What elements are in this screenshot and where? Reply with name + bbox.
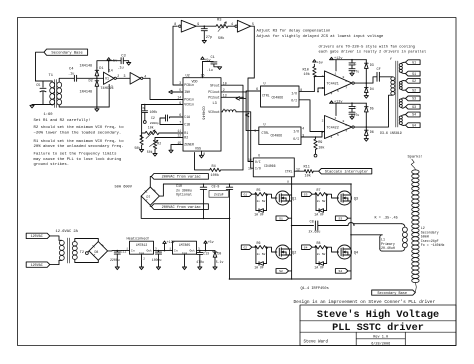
svg-text:PC1out: PC1out [208,90,220,94]
svg-text:S2: S2 [412,88,416,92]
svg-text:+12v: +12v [334,101,342,105]
svg-text:C13: C13 [203,251,209,255]
svg-text:50k: 50k [218,36,224,41]
svg-text:S3: S3 [412,97,416,101]
svg-text:R1: R1 [184,131,188,135]
ground (LM7812 Com) [141,254,143,267]
svg-text:Q2: Q2 [292,251,296,255]
svg-text:Out: Out [146,249,152,253]
svg-text:C1: C1 [211,56,215,60]
capacitor C8 2x.68u [314,221,316,230]
wire L2 bottom to Secondary Base flag [415,282,416,292]
svg-text:10: 10 [248,158,252,162]
GDT secondary windings [399,64,402,67]
svg-text:.1u: .1u [117,67,123,71]
zener D9 5.1v [214,251,216,252]
power +12v rail B [330,102,367,104]
wire +5v to U1 VCC [108,61,110,72]
svg-text:Design is an improvement on St: Design is an improvement on Steve Conner… [294,299,436,305]
wire U1d output down to CD4066 section [248,26,254,161]
flag 200VAC from variac (bottom) [151,204,208,210]
svg-text:50k: 50k [147,150,153,154]
wire U4 out2 to TC4422 path [299,100,322,132]
wire R6 to Q2 gate [268,247,277,252]
decoupling caps 47u (A) [351,60,353,63]
ground (R1) [140,150,144,153]
diode D3 1N5819 [365,60,367,64]
svg-text:4: 4 [331,135,333,139]
svg-text:R10: R10 [303,68,309,72]
wire PCBin vertical to delay chain [173,26,183,85]
decoupling caps 47u (B) [351,103,353,106]
wire 7805 out [197,250,216,252]
primary L1 loop top wire [354,223,402,225]
svg-text:Q1: Q1 [292,197,297,201]
wire loop right side to U1 pin7 [108,84,110,107]
svg-text:3: 3 [124,74,126,78]
U2 VSS ground [201,151,203,155]
wire SFout [221,85,243,97]
svg-text:each gate driver is really 2 d: each gate driver is really 2 drivers in … [319,50,427,55]
capacitor C8-9 2x2uF [229,184,231,187]
svg-text:CTRL: CTRL [285,169,293,173]
svg-text:1A UF: 1A UF [254,265,264,269]
wires T2 to bridge D8 [75,239,99,242]
diode D5 1N5819 [365,103,367,107]
flag 120VAC top [26,233,50,238]
diode D4 1N5819 [365,83,367,87]
svg-text:R2 should set the minimum VCO: R2 should set the minimum VCO freq, to [34,125,125,130]
svg-text:T2: T2 [80,251,84,255]
svg-text:C8-9: C8-9 [212,184,220,188]
svg-text:2: 2 [322,74,324,78]
bypass diode 1A UF (Q1 gate) [255,194,257,210]
svg-text:Sparks!: Sparks! [408,155,423,160]
wire U1 out to inverter 2 [116,77,130,79]
svg-text:1A UF: 1A UF [254,212,264,216]
wire U1b out to U2 PCAin [143,78,183,99]
svg-text:U1: U1 [105,77,109,81]
transistor Q1 IRFP450 [276,191,290,205]
wire C4 to diode junction and U1 input [77,77,104,79]
svg-text:O/I: O/I [293,137,299,141]
svg-text:R6: R6 [257,241,261,245]
flag 120VAC bottom [26,262,50,267]
capacitor C5 (polarized) [42,81,44,87]
H-bridge output mid wire with C8 [292,225,314,227]
svg-text:1N4148: 1N4148 [80,91,93,95]
svg-text:D8: D8 [95,250,99,254]
svg-text:8: 8 [174,22,176,26]
wire U5 out to TC4422 input [301,132,325,138]
flag S2 [276,269,289,274]
GDT secondary wires and flags [401,62,406,63]
wire D7 plus to DC bus [159,184,163,196]
svg-text:6: 6 [345,79,347,83]
resistor 10k (R1 pin) [159,132,183,134]
GDT primary winding [391,77,395,81]
svg-text:6: 6 [345,123,347,127]
trimmer R1 50k [145,131,159,134]
regulator LM7812 [130,241,154,254]
svg-text:+5v: +5v [111,59,118,63]
svg-text:+5v: +5v [317,61,323,65]
svg-text:R8: R8 [317,241,321,245]
svg-text:10k: 10k [305,174,311,179]
svg-text:27p: 27p [206,36,212,40]
svg-text:CD4066: CD4066 [272,95,284,99]
svg-text:R3: R3 [217,18,221,22]
U2 VDD +5v and capacitor C1 [202,62,204,78]
svg-text:PCAin: PCAin [184,98,194,102]
power +12v rail A [330,59,367,61]
svg-text:U: U [264,82,266,86]
bypass diode 1A UF (Q4 gate) [315,247,317,263]
power +5v (R10) [313,60,316,62]
svg-text:D1: D1 [99,67,103,71]
svg-text:Secondary Base: Secondary Base [377,291,407,296]
svg-text:S3: S3 [339,216,343,220]
resistor R10 10k pullup [313,67,316,77]
svg-text:200VAC from variac: 200VAC from variac [162,205,201,210]
trimmer R2 50k [155,138,183,141]
junction arrow 1 [236,97,240,100]
wire D7 minus return [141,196,229,218]
svg-text:C: C [355,62,357,66]
svg-text:C5: C5 [36,84,40,88]
svg-text:R11: R11 [304,166,310,170]
svg-text:47u: 47u [354,69,360,73]
ground (U2 VSS) [199,155,203,158]
svg-text:1:60: 1:60 [44,113,54,117]
svg-text:5: 5 [252,22,254,26]
flag G4 [302,245,313,250]
svg-text:8: 8 [343,75,345,79]
capacitor C6 (loop filter) [144,105,146,111]
wires 120VAC to T2 [50,236,59,240]
wire ZENER pin [171,145,183,151]
svg-text:I/O: I/O [255,167,261,171]
svg-text:Failure to set the frequency l: Failure to set the frequency limits [34,152,118,157]
svg-text:4: 4 [231,22,233,26]
svg-text:10k: 10k [318,146,324,151]
svg-text:10k: 10k [304,72,310,77]
terminal circle (D8 minus) [88,251,89,252]
svg-text:G1: G1 [243,192,247,196]
capacitor CF [376,72,378,81]
capacitor C3 [109,60,121,62]
wire U4 out to TC4421 input [299,77,314,92]
ground (caps B) [350,117,354,120]
svg-text:S1: S1 [279,216,283,220]
svg-text:CD4046: CD4046 [201,106,205,119]
svg-text:1A UF: 1A UF [314,265,324,269]
svg-text:U: U [264,123,266,127]
transistor Q3 IRFP450 [338,191,352,205]
svg-text:CD4066: CD4066 [271,134,283,138]
ground (caps A) [350,73,354,76]
junction arrow 2 [246,113,249,116]
capacitor C10 2x3900u [203,184,205,187]
svg-text:1A UF: 1A UF [314,212,324,216]
U2 INH ground symbol [172,91,183,93]
svg-text:SFout: SFout [210,83,220,87]
capacitor C2 2000p [170,117,184,118]
svg-text:R1 should set the maximum VCO: R1 should set the maximum VCO freq, to [34,139,125,144]
svg-text:C: C [355,105,357,109]
wire R5 to Q1 gate [268,194,277,198]
svg-text:PCBin: PCBin [184,83,194,87]
power +5v tap [205,243,207,250]
capacitor C7 27p [203,26,205,28]
wire T1 secondary bottom loop [59,105,109,107]
svg-text:Steve Ward: Steve Ward [304,339,329,344]
svg-text:VCOout: VCOout [208,110,220,114]
svg-text:2x: 2x [317,200,321,203]
wire TC4421 pin3 [318,88,325,92]
inverter U1b 74HC14 [130,73,140,85]
svg-text:1: 1 [126,248,128,251]
svg-text:3: 3 [322,86,324,90]
svg-text:D3: D3 [370,63,374,67]
driver U8 TC4422 [325,116,352,139]
svg-text:11: 11 [248,166,252,170]
ground (R2) [153,154,157,157]
ground (D9) [213,267,217,270]
svg-text:In: In [131,249,135,253]
potentiometer R3 50k [216,25,228,28]
flag S3 [335,216,348,221]
resistor R9 10k [315,137,317,139]
svg-text:LM7812: LM7812 [136,243,148,247]
svg-text:U2: U2 [186,74,190,78]
svg-text:2x: 2x [257,253,261,256]
ground (C7) [202,41,206,44]
svg-text:Q4: Q4 [354,251,359,255]
svg-text:2x.68u: 2x.68u [309,230,321,234]
resistor R11 10k [294,170,304,172]
resistor R7 [312,193,315,195]
wire R7 to Q3 gate [328,194,339,198]
H-bridge right rail [350,184,352,279]
wire C8 to L1 with hop over rail [318,225,348,227]
transformer GDT core [395,61,397,127]
svg-text:Adjust R3 for delay compensati: Adjust R3 for delay compensation [257,29,331,34]
ground (zener pin) [169,150,173,153]
bridge rectifier D7 50A 600V [141,187,159,205]
svg-text:7: 7 [345,129,347,133]
svg-text:10: 10 [223,81,227,85]
svg-text:D2: D2 [89,80,93,84]
svg-text:Set R1 and R2 carefully!: Set R1 and R2 carefully! [34,118,91,123]
svg-text:G2: G2 [243,245,247,249]
flag Secondary Base (output) [372,290,416,295]
ground (D4) [364,96,368,99]
L1 loop bottom wire [382,250,401,252]
svg-text:2: 2 [322,119,324,123]
svg-text:5W: 5W [322,200,326,203]
svg-text:C2: C2 [151,116,155,120]
flag G3 [302,192,313,197]
ground (LM7805 Com) [184,254,186,267]
wire PC1out to CD4066 U3 [221,92,259,131]
svg-text:100k: 100k [150,110,158,114]
svg-text:TC4421: TC4421 [327,82,339,86]
svg-text:5: 5 [337,89,339,93]
svg-text:3: 3 [322,130,324,134]
svg-text:2: 2 [143,258,145,261]
transformer T1 [50,82,55,88]
IC U6 CD4066 (staccato switch) [253,158,294,177]
inverter U1d 74HC14 (delay) [235,25,237,27]
capacitor C4 [73,75,75,81]
IC U2 CD4046 body [183,78,221,151]
svg-text:R5: R5 [257,188,261,192]
capacitor C11 2200u [116,251,118,252]
flag G1 [241,192,252,197]
capacitor C12 1000u [158,251,160,252]
svg-text:50A 600V: 50A 600V [115,185,133,189]
svg-text:5W: 5W [262,253,266,256]
wire D7 to flag bottom [149,205,151,206]
svg-text:PLL SSTC driver: PLL SSTC driver [332,322,424,334]
bypass diode 1A UF (Q3 gate) [315,194,317,210]
svg-text:TC4422: TC4422 [327,126,339,130]
resistor R4 100k [195,153,210,170]
wire T1 primary stubs [51,81,53,82]
svg-text:8: 8 [343,119,345,123]
driver U7 TC4421 [325,71,352,95]
svg-text:14: 14 [109,68,113,72]
op-amp U1 inverter 74HC14 [104,72,115,84]
svg-text:~20% lower than the loaded sec: ~20% lower than the loaded secondary. [34,131,122,136]
inverter U1c 74HC14 (delay) [179,25,181,27]
svg-text:R9: R9 [318,141,322,145]
svg-text:Steve's High Voltage: Steve's High Voltage [317,309,439,321]
svg-text:CF: CF [377,68,381,72]
svg-text:5.1v: 5.1v [216,260,224,264]
svg-text:D7: D7 [147,195,151,199]
svg-text:Rev 1.0: Rev 1.0 [373,336,388,340]
wire D1 to +5v node [97,61,109,68]
svg-text:D5: D5 [370,106,374,110]
svg-text:C1A: C1A [184,115,190,119]
svg-text:120VAC: 120VAC [31,264,43,268]
svg-text:C3: C3 [121,55,125,59]
svg-text:S2: S2 [279,269,283,273]
IC U4 CD4066 (upper switch) [261,86,300,107]
svg-text:9: 9 [197,22,199,26]
svg-text:.1u: .1u [68,72,74,76]
svg-text:R4: R4 [212,165,216,169]
vertical rail to trimmer network [141,105,143,140]
svg-text:5: 5 [337,133,339,137]
svg-text:drivers are TO-220-5 style wit: drivers are TO-220-5 style with fan cool… [319,45,415,50]
wire R8 to Q4 gate [328,247,339,252]
svg-text:1: 1 [169,248,171,251]
svg-text:S1: S1 [412,72,416,76]
svg-text:2: 2 [117,74,119,78]
ground (C12) [156,267,160,270]
bridge rectifier D8 [89,242,108,261]
svg-text:6: 6 [256,87,258,91]
svg-text:Q1-4 IRFP450s: Q1-4 IRFP450s [301,287,329,291]
svg-text:CTRL: CTRL [262,94,270,98]
title block frame [300,305,456,346]
diode D2 1N4148 [96,78,98,81]
ground (D6) [364,139,368,142]
svg-text:Adjust for slightly delayed ZC: Adjust for slightly delayed ZCS at lowes… [257,34,385,39]
svg-text:7: 7 [345,85,347,89]
svg-text:G3: G3 [412,105,416,109]
bypass diode 1A UF (Q2 gate) [255,247,257,263]
svg-text:3: 3 [179,81,181,85]
ground (C13) [198,267,202,270]
ground (C3) [127,63,131,66]
svg-text:120VAC: 120VAC [31,235,43,239]
wire from Secondary Base flag down [36,52,45,81]
DC bus negative (bottom) [230,278,352,280]
svg-text:4: 4 [331,91,333,95]
svg-text:R2: R2 [184,136,188,140]
inductor L3 and VCOout wire [221,111,223,113]
svg-text:INH: INH [184,90,190,94]
capacitor C13 470u [199,251,201,252]
svg-text:In: In [174,249,178,253]
svg-text:+5v: +5v [208,241,214,245]
svg-text:C1B: C1B [184,123,190,127]
svg-text:G3: G3 [304,192,308,196]
svg-text:4: 4 [302,127,304,131]
svg-text:G2: G2 [412,79,416,83]
terminal circle (R9) [314,154,317,157]
ground (C1) [218,67,222,70]
svg-text:D6: D6 [370,130,374,134]
svg-text:O/I: O/I [291,99,297,103]
svg-text:2000p: 2000p [150,122,159,125]
resistor R8 [312,246,315,248]
svg-text:C8: C8 [310,221,314,225]
ground (C11) [115,267,119,270]
wire chain node [196,25,216,27]
svg-text:D9: D9 [218,252,222,256]
inductor L2 secondary coil [412,170,419,174]
transistor Q2 IRFP450 [276,245,290,259]
svg-text:Fo = ~140kHz: Fo = ~140kHz [421,243,445,247]
svg-text:C4: C4 [69,68,74,72]
svg-text:ground strikes.: ground strikes. [34,162,70,167]
svg-text:S4: S4 [412,113,416,117]
svg-text:D3-6 1N5819: D3-6 1N5819 [380,131,402,135]
svg-text:may cause the PLL to lose lock: may cause the PLL to lose lock during [34,157,122,162]
svg-text:T1: T1 [49,74,54,78]
svg-text:ZENER: ZENER [184,143,194,147]
svg-text:Q3: Q3 [354,197,358,201]
svg-text:200VAC from variac: 200VAC from variac [162,175,201,180]
svg-text:20-40uH: 20-40uH [381,246,395,250]
svg-text:Staccato interrupter: Staccato interrupter [325,169,369,174]
svg-text:10k: 10k [148,126,154,130]
wire PC2out to R4 filter [221,97,243,170]
svg-text:74HC14: 74HC14 [100,87,114,91]
resistor R5 [252,193,255,195]
inductor L1 primary [402,227,407,232]
svg-text:D4: D4 [370,87,374,91]
svg-text:R7: R7 [317,188,321,192]
wire flag to D7 [150,176,151,187]
flag G2 [241,245,252,250]
IC U5 CD4066 (lower switch) [259,127,301,145]
